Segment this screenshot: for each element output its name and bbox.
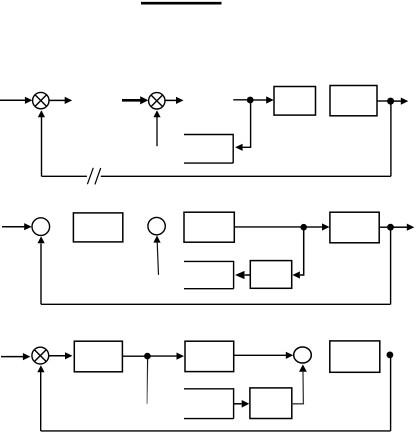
block G6	[74, 341, 122, 372]
block H4 (open left)	[184, 389, 234, 419]
wire G2 to node N2	[377, 100, 390, 102]
wire takeoff N3 down	[300, 227, 304, 275]
node N3	[300, 224, 307, 231]
block G4	[184, 212, 234, 242]
wire input to summer S2 (thick)	[122, 99, 141, 102]
wire G5 to node N4	[379, 226, 387, 228]
node N5	[144, 353, 151, 360]
wire feedback up to C1	[40, 244, 42, 305]
arrow into block G1	[266, 96, 274, 103]
wire feedback down from N6	[390, 355, 392, 431]
wire input R	[2, 226, 25, 228]
block G3	[73, 213, 122, 242]
arrow output C	[401, 98, 409, 105]
wire feedback bottom	[41, 430, 391, 432]
arrow up into C1 bottom	[38, 236, 45, 243]
arrow into block G6	[65, 352, 73, 359]
arrow S2 output	[176, 97, 184, 104]
wire disturbance below C2	[157, 242, 158, 275]
arrow into summer S2	[140, 96, 148, 104]
wire feedback bottom right segment	[101, 175, 391, 177]
wire G7 to summer C3	[234, 354, 286, 356]
wire S3 output	[49, 355, 65, 357]
wire S1 output	[49, 99, 65, 101]
wire takeoff N1 down	[243, 100, 251, 147]
block G7	[185, 341, 234, 371]
block G2	[330, 86, 377, 116]
arrow output C	[407, 224, 415, 231]
wire N3 to block G5	[307, 226, 323, 228]
node N1	[247, 97, 254, 104]
node N4	[387, 224, 394, 231]
wire N5 to block G7	[151, 355, 177, 357]
wire takeoff hanging below N5	[146, 359, 149, 404]
arrow into summer S1	[25, 97, 33, 104]
wire input R	[0, 99, 25, 101]
block H3	[250, 261, 291, 289]
wire feedback bottom left segment	[42, 175, 87, 177]
arrow S1 output	[65, 97, 73, 104]
summing junction S3	[32, 347, 49, 364]
wire N1 to block G1	[253, 99, 267, 101]
arrow into summer S3	[23, 353, 31, 360]
arrow into summer C3	[286, 352, 294, 359]
wire feedback down from N4	[390, 227, 392, 304]
wire feedback up to S3	[40, 372, 42, 431]
arrow into block H3	[292, 271, 300, 278]
arrow into block G7	[177, 353, 185, 360]
block G8	[330, 341, 380, 372]
wire before node N1	[233, 99, 250, 101]
wire H5 up to C3	[292, 372, 304, 404]
wire feedback up to S1	[41, 117, 43, 177]
arrow into summer C1	[24, 223, 32, 230]
summing junction S1	[33, 92, 49, 108]
wire feedback bottom	[41, 303, 391, 305]
wire G6 to node N5	[122, 355, 145, 357]
wire input R	[1, 356, 23, 358]
wire G4 to node N3	[235, 226, 301, 228]
summing junction C3	[294, 347, 312, 363]
wire hanging below S2	[156, 117, 158, 147]
arrow into block G5	[322, 223, 330, 230]
node N2	[387, 98, 394, 105]
block H2 (open left)	[184, 261, 234, 288]
wire H4 to H5	[234, 403, 242, 405]
break slash 1	[87, 168, 93, 184]
summing junction C2	[148, 217, 165, 234]
wire output	[394, 100, 402, 102]
arrow into feedback block H1	[235, 144, 243, 151]
arrow up into C2 bottom	[153, 235, 160, 242]
wire output	[394, 226, 408, 228]
summing junction C1	[32, 218, 50, 236]
title underline	[141, 2, 222, 5]
arrow up into S3 bottom	[37, 365, 44, 372]
arrow up into S1 bottom	[38, 110, 45, 117]
feedback block H1 (open left)	[184, 135, 233, 164]
arrow into block H2	[235, 271, 245, 279]
block G5	[330, 212, 379, 243]
wire H3 to H2	[245, 274, 251, 276]
arrow up into C3 bottom	[299, 364, 307, 371]
arrow into block H5	[242, 400, 250, 408]
summing junction S2	[149, 93, 165, 109]
break slash 2	[95, 168, 101, 184]
wire S2 output	[165, 99, 176, 101]
arrow up into S2 bottom	[153, 110, 160, 117]
block G1	[274, 87, 316, 116]
block H5	[250, 388, 292, 419]
wire feedback down from N2	[390, 101, 392, 176]
node N6	[387, 352, 394, 359]
